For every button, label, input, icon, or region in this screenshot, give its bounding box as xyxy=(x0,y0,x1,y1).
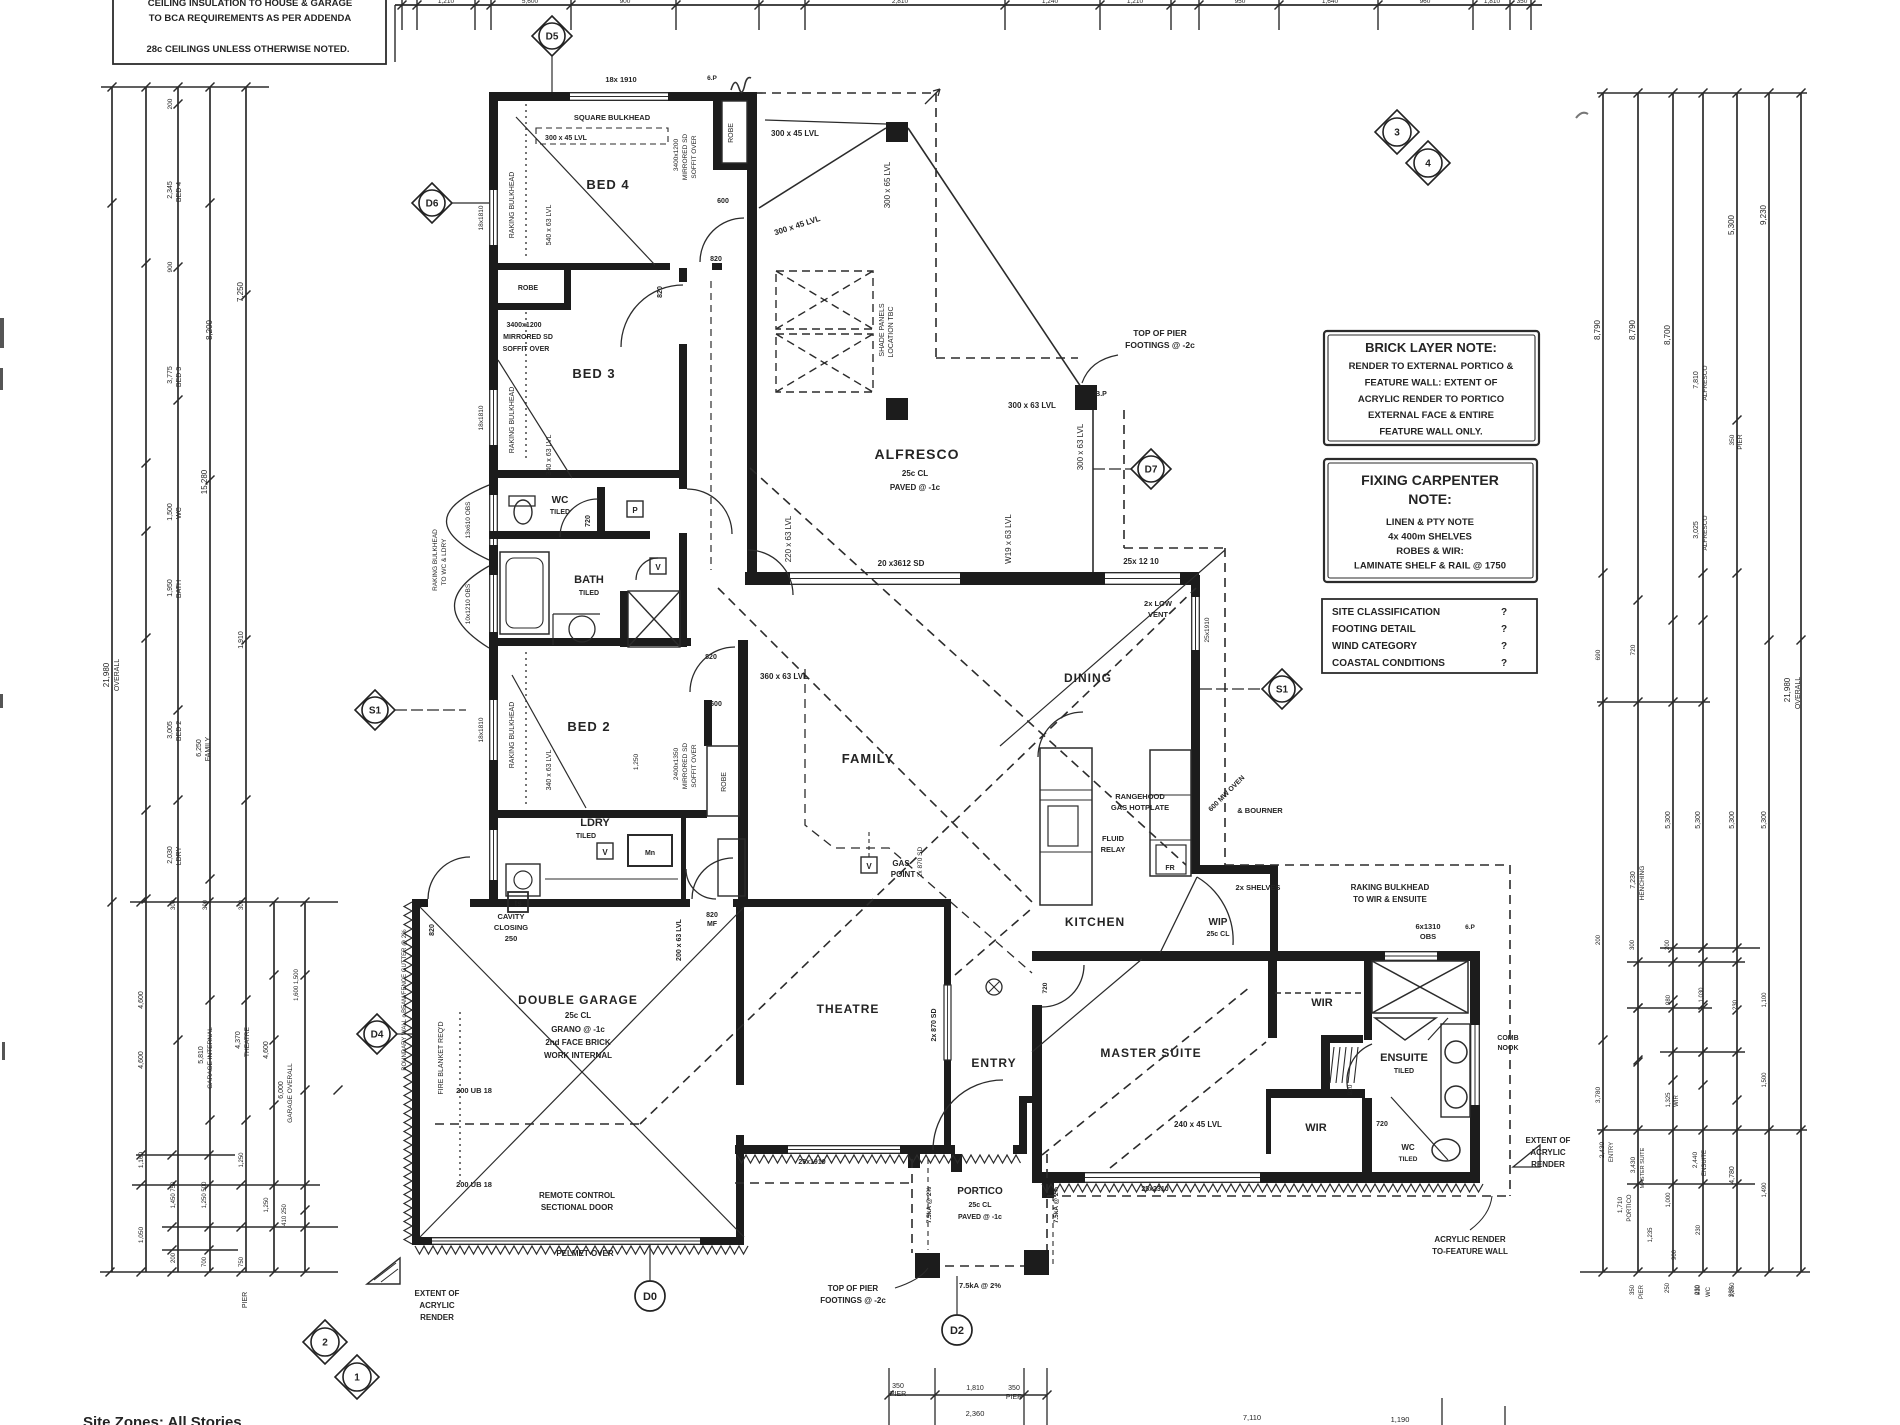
dimension line right x=1638 xyxy=(1637,93,1639,1272)
svg-text:SOFFIT OVER: SOFFIT OVER xyxy=(691,135,698,179)
dimension line right x=1603 xyxy=(1602,93,1604,1272)
fixing carpenter note box xyxy=(1324,459,1537,582)
svg-text:540 x 63 LVL: 540 x 63 LVL xyxy=(546,205,553,246)
svg-text:200 UB 18: 200 UB 18 xyxy=(456,1086,492,1095)
svg-text:TILED: TILED xyxy=(576,833,596,840)
svg-text:1,500: 1,500 xyxy=(167,503,174,521)
svg-text:LAMINATE SHELF & RAIL @ 1750: LAMINATE SHELF & RAIL @ 1750 xyxy=(1354,561,1506,572)
svg-text:1,250: 1,250 xyxy=(633,753,640,770)
gas point leader xyxy=(868,830,870,857)
svg-text:2400x1350: 2400x1350 xyxy=(673,748,680,781)
svg-text:MIRRORED SD: MIRRORED SD xyxy=(682,743,689,790)
svg-text:WIR: WIR xyxy=(1311,997,1332,1009)
door arc master xyxy=(1042,965,1084,1007)
svg-text:ALFRESCO: ALFRESCO xyxy=(875,446,960,462)
right extra ticks a xyxy=(1634,1004,1643,1067)
svg-text:DOUBLE GARAGE: DOUBLE GARAGE xyxy=(518,993,638,1007)
svg-text:18x1810: 18x1810 xyxy=(478,717,485,742)
svg-text:REMOTE CONTROL: REMOTE CONTROL xyxy=(539,1191,615,1200)
bath basin xyxy=(569,616,595,642)
svg-text:3,775: 3,775 xyxy=(167,366,174,384)
svg-text:720: 720 xyxy=(1042,982,1049,993)
roof dash x1124 xyxy=(1123,410,1125,548)
svg-text:5,300: 5,300 xyxy=(1729,811,1736,829)
left dim top tick row xyxy=(101,83,269,92)
svg-text:5,300: 5,300 xyxy=(1695,811,1702,829)
svg-text:8,790: 8,790 xyxy=(1593,319,1602,340)
marker S1 right xyxy=(1262,669,1302,709)
svg-text:8,700: 8,700 xyxy=(1663,324,1672,345)
svg-text:600: 600 xyxy=(717,198,729,205)
marker S1 right leader xyxy=(1200,688,1262,690)
left dim row y=1250 xyxy=(162,1246,238,1255)
kitchen island line1 xyxy=(1040,789,1092,791)
gas point box xyxy=(861,857,877,873)
svg-text:?: ? xyxy=(1501,641,1507,652)
door arc bathlobby xyxy=(687,489,732,534)
svg-text:RAKING BULKHEAD: RAKING BULKHEAD xyxy=(1351,883,1430,892)
svg-text:MASTER SUITE: MASTER SUITE xyxy=(1100,1046,1201,1060)
right extra ticks b xyxy=(1699,944,1708,1057)
svg-text:WC: WC xyxy=(1706,1286,1712,1297)
scan artifact left edge xyxy=(0,318,5,1060)
window bath left xyxy=(489,575,498,632)
roof dash diag family 1 xyxy=(750,468,1186,865)
door arc bed4 xyxy=(700,218,744,262)
dimension line left x=274 xyxy=(273,902,275,1272)
wall garage west xyxy=(412,899,420,1245)
window bed2 left xyxy=(489,700,498,760)
brick layer note box xyxy=(1324,331,1539,445)
ensuite towel diag xyxy=(1428,1018,1448,1040)
roof dash diagonal long xyxy=(640,588,1196,1124)
right dim ticks x=1603 xyxy=(1599,569,1608,1045)
svg-text:200 UB 18: 200 UB 18 xyxy=(456,1180,492,1189)
svg-text:1,325: 1,325 xyxy=(1666,1092,1672,1108)
scan check mark xyxy=(1576,113,1588,118)
svg-text:900: 900 xyxy=(620,0,631,5)
right dim row y=962 xyxy=(1627,958,1745,967)
svg-text:COASTAL CONDITIONS: COASTAL CONDITIONS xyxy=(1332,658,1445,669)
marker D7 xyxy=(1131,449,1171,489)
svg-text:3,780: 3,780 xyxy=(1595,1086,1602,1103)
dimension line left x=112 xyxy=(111,87,113,1272)
svg-text:200: 200 xyxy=(1596,934,1602,945)
wall wc-wir divider xyxy=(1362,1098,1372,1174)
render band left of garage xyxy=(404,902,412,1244)
ceiling note box xyxy=(113,0,386,64)
left dim ticks x=178 xyxy=(174,100,183,1045)
svg-text:350: 350 xyxy=(1008,1385,1020,1392)
svg-text:ALFRESCO: ALFRESCO xyxy=(1702,365,1709,400)
svg-text:3,430: 3,430 xyxy=(1630,1156,1637,1173)
svg-text:300: 300 xyxy=(239,899,245,910)
svg-text:300: 300 xyxy=(203,899,209,910)
svg-text:PIER: PIER xyxy=(1737,434,1744,449)
svg-text:CAVITY: CAVITY xyxy=(498,912,525,921)
dotted bulkhead garage xyxy=(459,1012,461,1184)
svg-text:950: 950 xyxy=(1235,0,1246,5)
svg-text:?: ? xyxy=(1501,658,1507,669)
svg-text:OVERALL: OVERALL xyxy=(1795,677,1802,709)
wall bed4 robe left xyxy=(713,96,722,170)
window wc left xyxy=(489,495,498,545)
svg-text:1,810: 1,810 xyxy=(966,1385,984,1392)
wall garage bottom xyxy=(412,1237,744,1245)
dimension line left x=305 xyxy=(304,902,306,1272)
svg-text:4,780: 4,780 xyxy=(1729,1166,1736,1184)
roof dash alfresco east xyxy=(935,93,937,358)
svg-text:VENT: VENT xyxy=(1148,610,1168,619)
svg-text:230: 230 xyxy=(1733,999,1739,1010)
ldry trough bowl xyxy=(514,871,532,889)
roof dash y548 xyxy=(1124,547,1225,549)
svg-text:200: 200 xyxy=(171,1252,177,1263)
svg-text:PELMET OVER: PELMET OVER xyxy=(556,1249,614,1258)
window master bottom 25x2310 xyxy=(1085,1172,1260,1183)
svg-text:SHADE PANELS: SHADE PANELS xyxy=(879,303,886,356)
bed2 raking diagonal xyxy=(512,675,586,808)
wall bed3 robe right xyxy=(564,267,571,310)
svg-text:1,210: 1,210 xyxy=(438,0,455,5)
svg-text:2x 870 SD: 2x 870 SD xyxy=(931,1008,938,1041)
svg-text:RAKING BULKHEAD: RAKING BULKHEAD xyxy=(509,702,516,769)
theatre sd opening xyxy=(944,985,951,1060)
marker 2 xyxy=(303,1320,347,1364)
svg-text:D2: D2 xyxy=(950,1325,964,1337)
svg-text:1,250: 1,250 xyxy=(264,1197,270,1213)
kitchen fridge line2 xyxy=(1150,839,1191,841)
svg-text:6,000: 6,000 xyxy=(278,1081,285,1099)
portico right post stub xyxy=(951,1154,962,1172)
svg-text:200 x 63 LVL: 200 x 63 LVL xyxy=(676,918,683,961)
svg-text:1,190: 1,190 xyxy=(1391,1415,1410,1424)
kitchen fridge col xyxy=(1150,750,1191,876)
svg-text:1,240: 1,240 xyxy=(1042,0,1059,5)
svg-text:300 x 45 LVL: 300 x 45 LVL xyxy=(773,214,821,237)
door arc kitchen xyxy=(1038,712,1083,757)
wall wing top xyxy=(489,92,757,101)
wall wc-bath divider xyxy=(489,531,650,539)
marker 4 xyxy=(1406,141,1450,185)
svg-text:25x1910: 25x1910 xyxy=(1204,617,1211,642)
ensuite vanity xyxy=(1441,1024,1470,1117)
svg-text:FLUID: FLUID xyxy=(1102,834,1125,843)
alfresco shade panel box xyxy=(776,334,873,392)
svg-text:WIR: WIR xyxy=(1674,1095,1680,1107)
wall bed2 east stub xyxy=(704,700,712,746)
svg-text:200: 200 xyxy=(167,98,174,109)
right dim ticks x=1703 xyxy=(1699,569,1708,1090)
window bed3 left xyxy=(489,390,498,445)
roof dash top alfresco xyxy=(757,92,936,94)
svg-text:3400x1200: 3400x1200 xyxy=(673,139,680,172)
svg-text:8,790: 8,790 xyxy=(1628,319,1637,340)
svg-text:COMB: COMB xyxy=(1497,1035,1518,1042)
svg-text:BED 3: BED 3 xyxy=(572,366,615,381)
linen closet xyxy=(718,839,745,896)
svg-text:PIER: PIER xyxy=(1639,1284,1645,1299)
svg-text:2,430: 2,430 xyxy=(1599,1141,1606,1158)
right dim top tick row xyxy=(1597,89,1807,98)
svg-text:BED 4: BED 4 xyxy=(176,182,183,202)
svg-text:4x 400m SHELVES: 4x 400m SHELVES xyxy=(1388,532,1472,543)
pier portico left xyxy=(915,1253,940,1278)
svg-text:ACRYLIC RENDER TO PORTICO: ACRYLIC RENDER TO PORTICO xyxy=(1358,394,1504,405)
left dim ticks x=146 xyxy=(142,259,151,904)
left dim row y=1155 xyxy=(136,1151,235,1160)
svg-text:FOOTINGS @ -2c: FOOTINGS @ -2c xyxy=(820,1296,886,1305)
svg-text:MASTER SUITE: MASTER SUITE xyxy=(1640,1147,1646,1188)
wall hall-alfresco xyxy=(747,92,757,585)
svg-text:P: P xyxy=(632,506,638,515)
bath shower box xyxy=(628,591,680,647)
svg-text:WIP: WIP xyxy=(1209,917,1228,928)
svg-text:CLOSING: CLOSING xyxy=(494,923,528,932)
svg-text:4,600: 4,600 xyxy=(263,1041,270,1059)
svg-text:MF: MF xyxy=(707,921,718,928)
svg-text:BRICK LAYER NOTE:: BRICK LAYER NOTE: xyxy=(1365,340,1497,355)
svg-text:1,100: 1,100 xyxy=(1762,992,1768,1008)
svg-text:FAMILY: FAMILY xyxy=(205,736,212,761)
wall entry niche horizontal xyxy=(1019,1096,1034,1103)
svg-text:250: 250 xyxy=(505,934,518,943)
door arc bed2 xyxy=(690,647,735,692)
extent right triangle xyxy=(1513,1145,1540,1167)
window alfresco sliding door xyxy=(790,572,960,585)
svg-text:9,230: 9,230 xyxy=(1759,204,1768,225)
ensuite wc bowl xyxy=(1432,1139,1460,1161)
marker D5 xyxy=(532,16,572,56)
svg-text:ENSUITE: ENSUITE xyxy=(1702,1150,1708,1176)
svg-text:D4: D4 xyxy=(371,1030,384,1041)
svg-text:6x1310: 6x1310 xyxy=(1415,922,1440,931)
theatre cavity sd xyxy=(944,985,951,1060)
svg-text:FR: FR xyxy=(1165,865,1174,872)
roof dash garage y1124 xyxy=(435,1123,640,1125)
marker 3 xyxy=(1375,110,1419,154)
bath tub inner xyxy=(506,558,543,628)
svg-text:4,600: 4,600 xyxy=(138,1051,145,1069)
svg-text:& BOURNER: & BOURNER xyxy=(1237,806,1283,815)
svg-text:NOOK: NOOK xyxy=(1498,1045,1519,1052)
svg-text:ROBES & WIR:: ROBES & WIR: xyxy=(1396,546,1464,557)
wall master-ensuite top xyxy=(1032,951,1480,961)
wir bulkhead dash xyxy=(1275,992,1365,994)
svg-text:D5: D5 xyxy=(546,32,559,43)
svg-text:300 x 45 LVL: 300 x 45 LVL xyxy=(545,135,588,142)
bottom tick x=1505 xyxy=(1504,1406,1506,1425)
site classification box xyxy=(1322,599,1537,673)
ensuite wc diag xyxy=(1391,1097,1448,1160)
brick layer note inner xyxy=(1328,335,1535,441)
dotted bulkhead bed3 xyxy=(525,312,527,460)
right dim row y=1008 xyxy=(1627,1004,1712,1013)
svg-text:GRANO @ -1c: GRANO @ -1c xyxy=(551,1025,605,1034)
svg-text:RANGEHOOD: RANGEHOOD xyxy=(1115,792,1165,801)
dimension line left x=246 xyxy=(245,87,247,1272)
ensuite basin 1 xyxy=(1445,1041,1467,1063)
svg-text:4,370: 4,370 xyxy=(235,1031,242,1049)
svg-text:PORTICO: PORTICO xyxy=(1627,1194,1633,1222)
svg-text:360 x 63 LVL: 360 x 63 LVL xyxy=(760,672,808,681)
svg-text:BED 3: BED 3 xyxy=(176,367,183,387)
left dim row y=1227 xyxy=(162,1223,338,1232)
marker D2 leader xyxy=(956,1276,958,1315)
svg-text:5,810: 5,810 xyxy=(198,1046,205,1064)
svg-text:900: 900 xyxy=(1672,1249,1678,1260)
svg-text:2nd FACE BRICK: 2nd FACE BRICK xyxy=(545,1038,611,1047)
garage sectional door xyxy=(432,1237,700,1245)
door arc wip xyxy=(1197,877,1233,945)
bath vanity top xyxy=(553,613,600,615)
door arc front xyxy=(933,1080,1003,1150)
kitchen island xyxy=(1040,748,1092,905)
svg-text:GARAGE OVERALL: GARAGE OVERALL xyxy=(287,1063,294,1123)
svg-text:BED 2: BED 2 xyxy=(176,721,183,741)
right dim ticks x=1737 xyxy=(1733,416,1742,1105)
entry smoke detector xyxy=(986,979,1002,995)
svg-text:1,210: 1,210 xyxy=(1127,0,1144,5)
svg-text:5,300: 5,300 xyxy=(1665,811,1672,829)
svg-text:1,250: 1,250 xyxy=(239,1152,245,1168)
svg-text:OVERALL: OVERALL xyxy=(114,659,121,691)
wall theatre-entry bottom xyxy=(735,1145,1019,1154)
bulkhead arc wc xyxy=(447,485,490,560)
dimension line right x=1673 xyxy=(1672,93,1674,1272)
pier alfresco top xyxy=(886,122,908,142)
marker D4 xyxy=(357,1014,397,1054)
svg-text:WORK INTERNAL: WORK INTERNAL xyxy=(544,1051,612,1060)
dimension line left x=210 xyxy=(209,87,211,1272)
eave line top pier xyxy=(765,120,886,124)
wall ldry lobby divider xyxy=(681,818,686,899)
svg-text:RAKING BULKHEAD: RAKING BULKHEAD xyxy=(509,172,516,239)
svg-text:690: 690 xyxy=(1595,649,1602,660)
ldry vent box xyxy=(597,843,613,859)
roof dash x1510 xyxy=(1509,865,1511,1196)
wall bed2 bottom xyxy=(489,810,707,818)
wall ensuite east xyxy=(1470,951,1480,1183)
portico dash west xyxy=(911,1159,913,1253)
door arc ensuite xyxy=(1347,1044,1372,1090)
bed4 raking diagonal xyxy=(516,117,655,265)
svg-text:820: 820 xyxy=(710,256,722,263)
wall bed3 bottom / wc top xyxy=(489,470,687,478)
wall entry niche vertical xyxy=(1019,1100,1027,1154)
svg-text:BED 4: BED 4 xyxy=(586,177,629,192)
svg-text:720: 720 xyxy=(1630,644,1637,655)
svg-text:21,980: 21,980 xyxy=(102,662,111,687)
valley line alfresco west xyxy=(759,128,886,208)
portico dash inner right xyxy=(1052,1196,1054,1266)
left dim ticks x=338 xyxy=(334,1086,343,1095)
svg-text:FOOTINGS @ -2c: FOOTINGS @ -2c xyxy=(1125,340,1195,350)
wall wir-bottom top xyxy=(1266,1089,1365,1098)
svg-text:ts: ts xyxy=(514,899,522,908)
marker S1 left leader xyxy=(395,709,466,711)
bed4 robe box xyxy=(722,101,747,163)
svg-text:THEATRE: THEATRE xyxy=(817,1002,880,1016)
svg-text:PIER: PIER xyxy=(890,1391,906,1398)
svg-text:1,910: 1,910 xyxy=(238,631,245,649)
acrylic feature leader xyxy=(1470,1196,1492,1230)
svg-text:1,710: 1,710 xyxy=(1617,1196,1624,1213)
right dim ticks x=1638 xyxy=(1634,596,1643,1065)
svg-text:2: 2 xyxy=(322,1338,328,1349)
svg-text:980: 980 xyxy=(1666,994,1672,1005)
svg-text:7.5kA @ 2%: 7.5kA @ 2% xyxy=(959,1281,1001,1290)
svg-text:MIRRORED SD: MIRRORED SD xyxy=(503,334,553,341)
shower door arc xyxy=(636,558,658,580)
svg-text:1,600 1,500: 1,600 1,500 xyxy=(294,968,300,1000)
svg-text:B.P: B.P xyxy=(1095,391,1107,398)
alfresco shade panel box xyxy=(776,271,873,329)
valley line alfresco xyxy=(908,128,1085,393)
wall bed4 bottom xyxy=(489,263,670,270)
svg-text:3400x1200: 3400x1200 xyxy=(506,322,541,329)
svg-text:250: 250 xyxy=(1665,1282,1671,1293)
svg-text:300 x 45 LVL: 300 x 45 LVL xyxy=(771,129,819,138)
theatre cavity mid xyxy=(947,985,949,1060)
roof dash below theatre xyxy=(735,1182,912,1184)
wall kitchen jog vertical xyxy=(1270,865,1278,957)
svg-text:5,600: 5,600 xyxy=(522,0,539,5)
svg-text:300: 300 xyxy=(171,899,177,910)
svg-text:340 x 63 LVL: 340 x 63 LVL xyxy=(546,435,553,476)
wall kitchen jog horizontal xyxy=(1191,865,1277,874)
svg-text:D7: D7 xyxy=(1145,465,1158,476)
portico left post stub xyxy=(908,1154,920,1168)
marker D6 xyxy=(412,183,452,223)
svg-text:2x 870 SD: 2x 870 SD xyxy=(917,847,924,878)
svg-text:1,450 750: 1,450 750 xyxy=(171,1181,177,1208)
svg-text:7,110: 7,110 xyxy=(1243,1413,1261,1422)
front door opening xyxy=(955,1145,1013,1154)
bed3 raking diagonal xyxy=(498,360,572,478)
svg-text:5,300: 5,300 xyxy=(1761,811,1768,829)
svg-text:S1: S1 xyxy=(1276,685,1289,696)
dining diagonal xyxy=(1000,550,1225,746)
svg-text:300 x 65 LVL: 300 x 65 LVL xyxy=(883,161,892,208)
ensuite basin 2 xyxy=(1445,1086,1467,1108)
svg-text:V: V xyxy=(866,862,872,871)
svg-text:25c CL: 25c CL xyxy=(565,1011,591,1020)
svg-text:PIER: PIER xyxy=(1006,1394,1022,1401)
svg-text:350: 350 xyxy=(1630,1284,1636,1295)
wall wir closet top xyxy=(1321,1035,1363,1043)
left dim row y=902 xyxy=(130,898,338,907)
wir closet hatch xyxy=(1330,1047,1358,1083)
render band below master xyxy=(1042,1184,1483,1192)
svg-text:25c CL: 25c CL xyxy=(902,469,928,478)
dimension line right x=1737 xyxy=(1736,93,1738,1272)
svg-text:25c CL: 25c CL xyxy=(969,1202,993,1209)
svg-text:4,600: 4,600 xyxy=(138,991,145,1009)
marker D4 leader xyxy=(397,1033,412,1035)
wall wir-bottom west xyxy=(1266,1091,1271,1154)
svg-text:3,005: 3,005 xyxy=(167,721,174,739)
portico dash bottom xyxy=(915,1265,1047,1267)
wall wir-top west xyxy=(1268,961,1277,1038)
svg-text:1,490: 1,490 xyxy=(1762,1182,1768,1198)
extent triangle hatch xyxy=(374,1263,398,1282)
svg-text:7.5kA @ 2%: 7.5kA @ 2% xyxy=(1053,1187,1060,1224)
svg-text:FAMILY: FAMILY xyxy=(842,751,894,766)
wall bath-bed2 divider xyxy=(489,638,691,646)
svg-text:300: 300 xyxy=(1630,939,1636,950)
svg-text:25x2310: 25x2310 xyxy=(1141,1186,1168,1193)
